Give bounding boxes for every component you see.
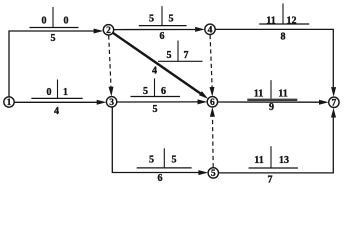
wire edge 4-7 xyxy=(215,29,333,87)
label activity 5-7: 11|13 dur 7 xyxy=(249,146,298,186)
wire edge 3-6 xyxy=(117,101,198,103)
svg-text:5: 5 xyxy=(169,14,174,25)
svg-text:5: 5 xyxy=(167,50,172,61)
svg-text:12: 12 xyxy=(287,15,297,26)
wire dummy 2-3 (dashed) xyxy=(109,35,111,87)
svg-text:6: 6 xyxy=(161,86,166,97)
svg-text:4: 4 xyxy=(54,106,59,117)
svg-text:7: 7 xyxy=(332,99,337,109)
svg-text:6: 6 xyxy=(158,173,163,184)
svg-text:0: 0 xyxy=(42,16,47,27)
wire edge 2-6 (thick diagonal, critical) xyxy=(113,33,201,94)
svg-text:7: 7 xyxy=(268,175,273,186)
label activity 2-4: 5|5 dur 6 xyxy=(139,6,187,42)
svg-text:13: 13 xyxy=(279,155,289,166)
label activity 4-7: 11|12 dur 8 xyxy=(259,3,309,42)
svg-text:5: 5 xyxy=(149,14,154,25)
svg-text:5: 5 xyxy=(51,33,56,44)
svg-text:5: 5 xyxy=(211,169,216,179)
label activity 3-5: 5|5 dur 6 xyxy=(137,148,192,184)
svg-text:5: 5 xyxy=(149,155,154,166)
node 5 xyxy=(208,168,218,179)
wire edge 6-7 xyxy=(218,101,320,103)
svg-text:0: 0 xyxy=(64,16,69,27)
svg-text:3: 3 xyxy=(109,98,114,108)
label activity 1-3: 0|1 dur 4 xyxy=(31,80,82,118)
label activity 6-7: 11|11 dur 9 (thick grey underline) xyxy=(247,80,297,113)
node 2 xyxy=(103,25,113,36)
svg-text:4: 4 xyxy=(208,26,213,36)
svg-text:6: 6 xyxy=(210,98,215,108)
svg-text:4: 4 xyxy=(152,66,157,77)
svg-text:2: 2 xyxy=(106,26,111,36)
label activity 1-2: 0|0 dur 5 xyxy=(30,7,79,44)
label activity 2-6: 5|7 dur 4 xyxy=(152,41,203,77)
svg-text:5: 5 xyxy=(172,155,177,166)
node 7 xyxy=(329,97,339,108)
svg-text:1: 1 xyxy=(63,87,68,98)
svg-text:0: 0 xyxy=(47,87,52,98)
svg-text:7: 7 xyxy=(184,50,189,61)
svg-text:8: 8 xyxy=(281,31,286,42)
node 3 xyxy=(106,97,116,108)
node 1 xyxy=(4,97,14,108)
wire edge 1-3 xyxy=(14,101,97,103)
svg-text:5: 5 xyxy=(143,86,148,97)
node 6 xyxy=(207,97,217,108)
svg-text:5: 5 xyxy=(153,104,158,115)
node 4 xyxy=(205,24,215,35)
svg-text:11: 11 xyxy=(266,15,275,26)
wire dummy 5-6 (dashed) xyxy=(212,117,215,168)
svg-text:1: 1 xyxy=(7,98,12,108)
wire edge 2-4 xyxy=(114,29,196,31)
wire edge 3-5 xyxy=(112,107,198,173)
svg-text:6: 6 xyxy=(160,31,165,42)
svg-text:9: 9 xyxy=(269,102,274,113)
svg-text:11: 11 xyxy=(254,89,263,100)
wire edge 5-7 xyxy=(219,118,334,173)
svg-text:11: 11 xyxy=(278,89,287,100)
svg-text:11: 11 xyxy=(254,155,263,166)
wire edge 1-2 xyxy=(9,31,94,97)
label activity 3-6: 5|6 dur 5 xyxy=(131,78,181,115)
wire dummy 4-6 (dashed) xyxy=(210,35,212,87)
